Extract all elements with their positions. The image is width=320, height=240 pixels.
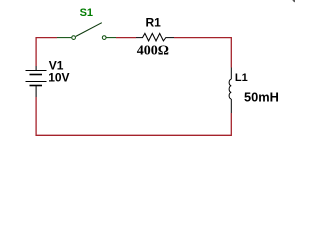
svg-text:R1: R1 — [146, 16, 162, 30]
svg-text:L1: L1 — [235, 72, 248, 84]
svg-text:S1: S1 — [80, 7, 93, 19]
svg-text:10V: 10V — [48, 70, 69, 84]
svg-text:50mH: 50mH — [244, 89, 279, 104]
svg-text:400Ω: 400Ω — [137, 44, 169, 59]
